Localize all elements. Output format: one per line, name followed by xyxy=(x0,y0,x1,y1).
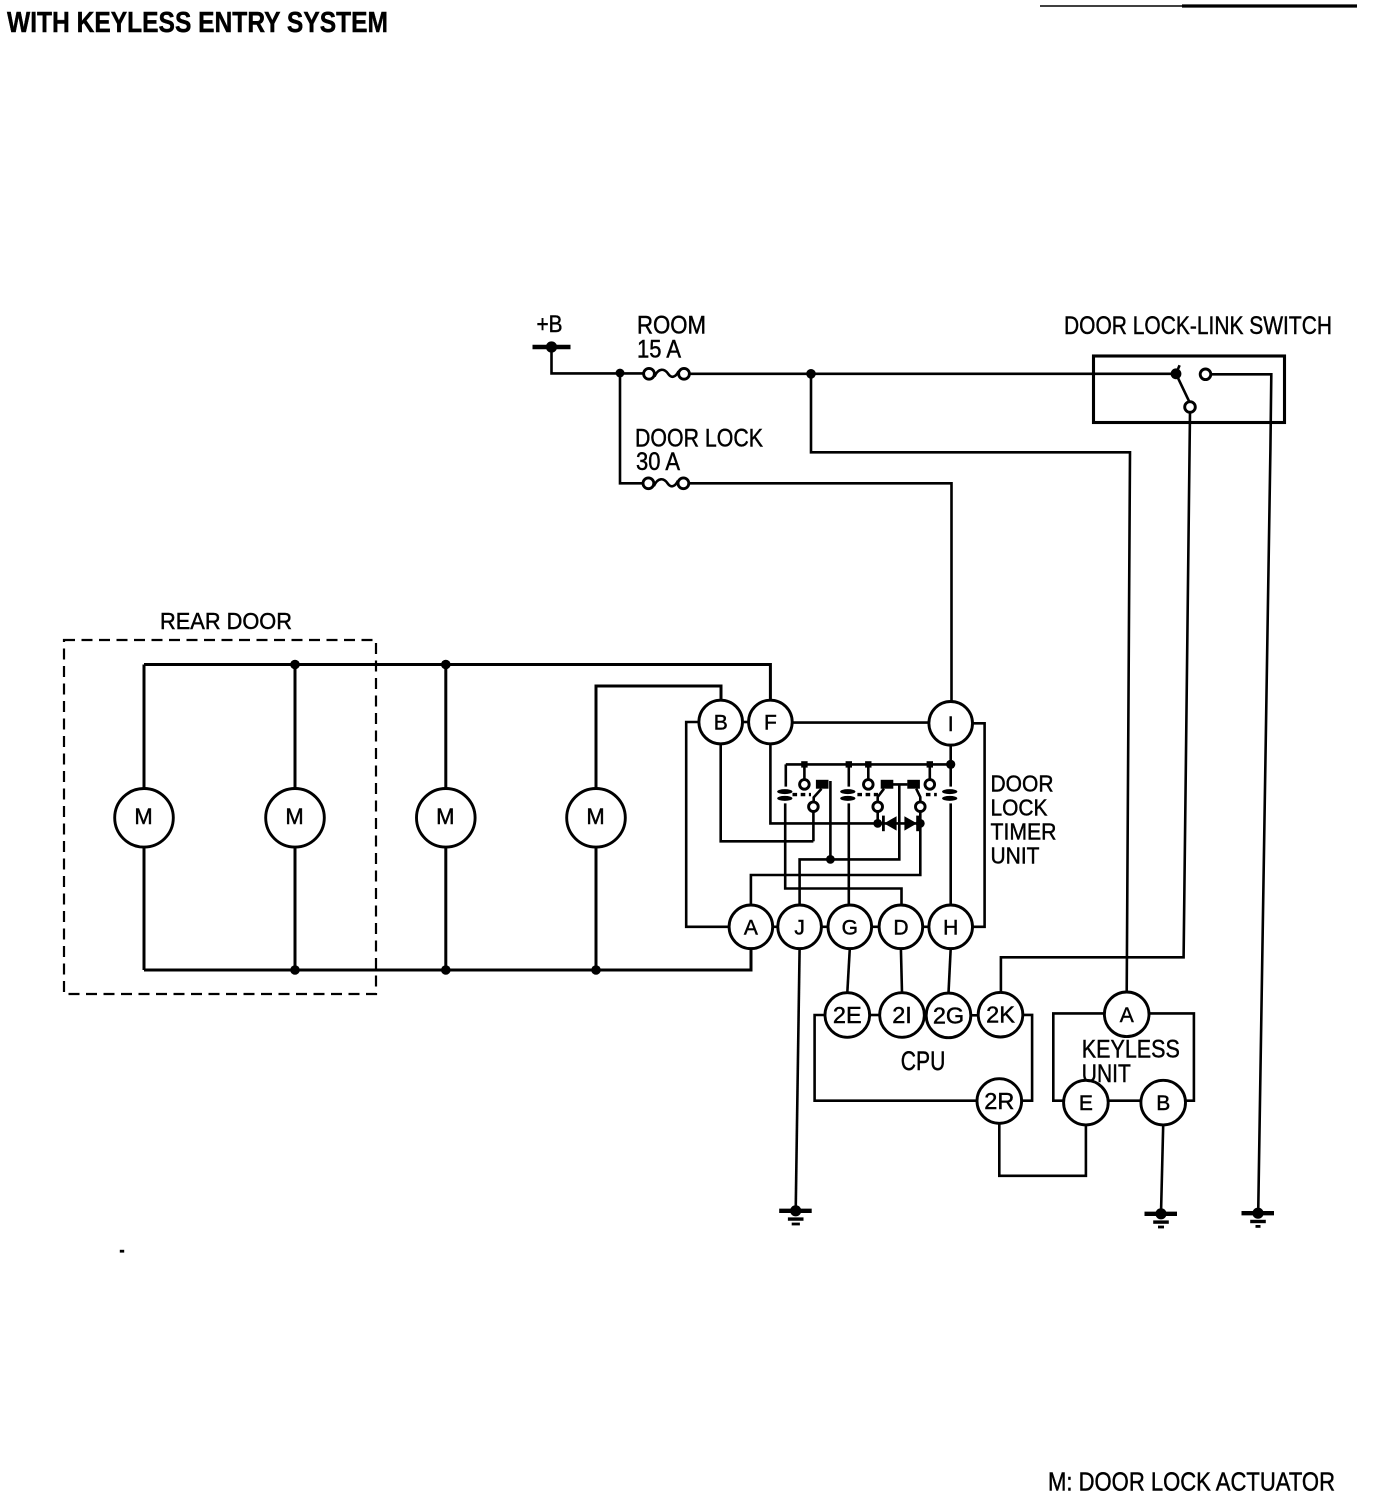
svg-text:I: I xyxy=(948,713,954,736)
svg-text:H: H xyxy=(943,916,958,939)
svg-text:E: E xyxy=(1079,1092,1093,1115)
svg-text:M: M xyxy=(586,804,604,829)
svg-text:B: B xyxy=(714,712,728,735)
svg-text:2I: 2I xyxy=(892,1002,912,1028)
svg-text:UNIT: UNIT xyxy=(1082,1060,1131,1088)
svg-text:2G: 2G xyxy=(933,1002,964,1028)
svg-text:M: M xyxy=(436,804,454,829)
svg-text:D: D xyxy=(893,916,908,939)
svg-text:UNIT: UNIT xyxy=(991,843,1040,869)
svg-text:M: M xyxy=(285,804,303,829)
svg-text:M: DOOR LOCK ACTUATOR: M: DOOR LOCK ACTUATOR xyxy=(1048,1467,1335,1497)
svg-text:WITH KEYLESS ENTRY SYSTEM: WITH KEYLESS ENTRY SYSTEM xyxy=(7,7,388,39)
svg-text:M: M xyxy=(134,804,152,829)
svg-text:DOOR LOCK-LINK SWITCH: DOOR LOCK-LINK SWITCH xyxy=(1064,312,1332,340)
svg-text:A: A xyxy=(1120,1004,1134,1027)
svg-text:2K: 2K xyxy=(986,1002,1015,1028)
svg-text:B: B xyxy=(1156,1092,1170,1115)
svg-text:DOOR: DOOR xyxy=(991,771,1054,797)
svg-text:REAR DOOR: REAR DOOR xyxy=(160,608,292,634)
svg-text:2E: 2E xyxy=(833,1002,862,1028)
svg-text:15 A: 15 A xyxy=(637,336,681,364)
svg-text:30 A: 30 A xyxy=(636,448,680,476)
svg-text:2R: 2R xyxy=(984,1088,1014,1114)
svg-text:A: A xyxy=(744,916,758,939)
svg-text:F: F xyxy=(764,712,777,735)
svg-text:CPU: CPU xyxy=(901,1046,946,1076)
svg-text:LOCK: LOCK xyxy=(991,795,1048,821)
svg-text:TIMER: TIMER xyxy=(991,819,1057,845)
svg-text:J: J xyxy=(794,916,805,939)
svg-text:G: G xyxy=(842,916,858,939)
svg-text:+B: +B xyxy=(537,311,563,338)
